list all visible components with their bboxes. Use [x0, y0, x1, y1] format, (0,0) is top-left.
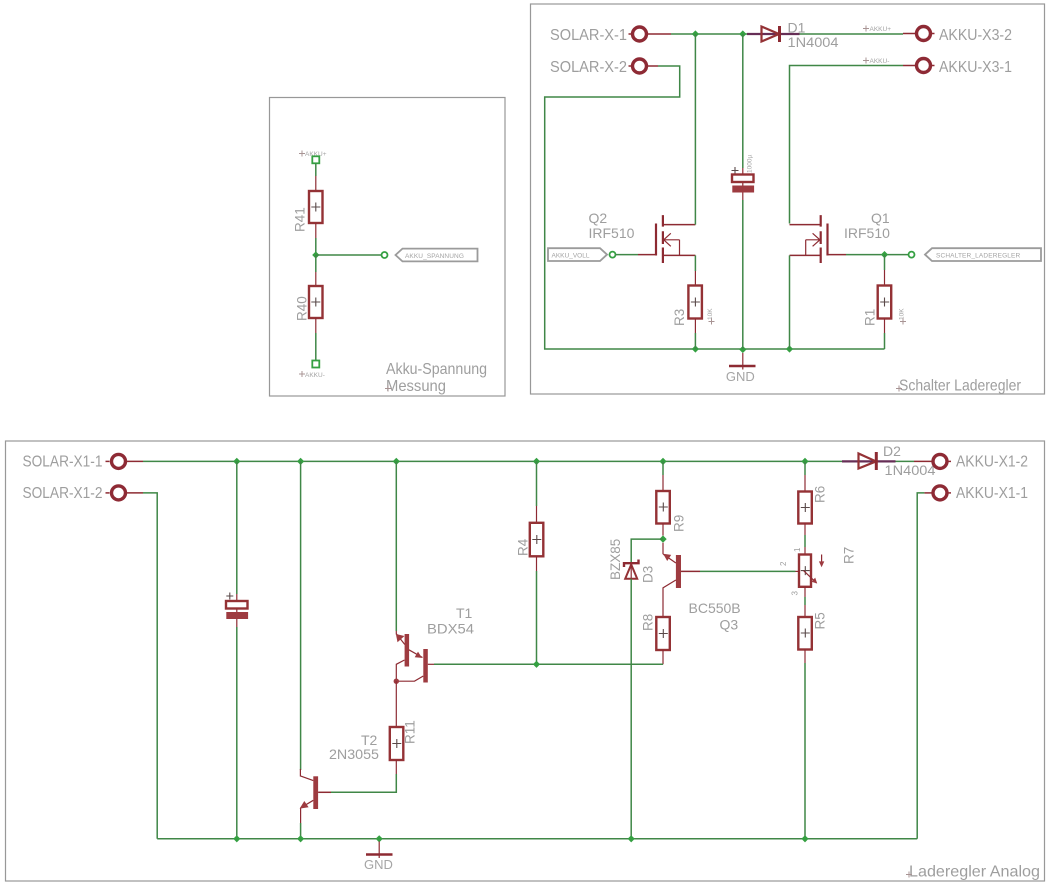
ground GND (box2)	[726, 353, 756, 384]
svg-text:R8: R8	[641, 614, 656, 631]
wire SOLAR-X-2 loop to bottom rail	[545, 66, 885, 349]
svg-text:SCHALTER_LADEREGLER: SCHALTER_LADEREGLER	[936, 253, 1021, 260]
wire	[315, 333, 317, 361]
wire Q2 drain up	[694, 34, 696, 225]
transistor Q2 IRF510	[589, 210, 696, 263]
svg-text:R7: R7	[842, 547, 857, 564]
junction	[786, 345, 793, 352]
wire	[616, 254, 639, 256]
svg-text:R9: R9	[672, 515, 687, 532]
wire	[315, 255, 317, 272]
wire cap top	[236, 461, 238, 594]
connector SOLAR-X1-2	[23, 485, 144, 502]
wire Q3 base to pot	[700, 570, 796, 572]
wire zener down	[630, 579, 632, 839]
junction zener node	[659, 535, 666, 542]
resistor R4	[516, 461, 544, 571]
svg-text:1000µ: 1000µ	[747, 155, 754, 173]
wire R4 bottom	[536, 571, 538, 664]
svg-text:AKKU-X3-1: AKKU-X3-1	[939, 59, 1012, 76]
diode D1 1N4004	[747, 20, 839, 51]
svg-text:GND: GND	[364, 857, 393, 872]
svg-text:T1: T1	[456, 605, 473, 621]
svg-text:Q1: Q1	[871, 210, 890, 226]
diode D2 1N4004	[842, 443, 936, 478]
svg-text:Akku-Spannung: Akku-Spannung	[386, 361, 487, 378]
svg-text:IRF510: IRF510	[589, 225, 635, 241]
wire Q1 source down	[789, 255, 791, 349]
wire from AKKU-X3-1 down to Q1 drain	[790, 66, 904, 224]
transistor Q3 BC550B	[663, 543, 741, 633]
resistor R1	[863, 270, 907, 333]
svg-text:Q3: Q3	[720, 617, 739, 633]
svg-text:Schalter Laderegler: Schalter Laderegler	[899, 378, 1022, 395]
svg-text:R5: R5	[813, 612, 828, 629]
wire	[896, 460, 915, 462]
svg-text:R40: R40	[295, 296, 310, 321]
svg-text:Laderegler Analog: Laderegler Analog	[909, 864, 1040, 881]
wire	[671, 33, 747, 35]
resistor R5	[798, 605, 827, 663]
wire cap bottom	[236, 627, 238, 839]
pin circle	[909, 252, 915, 258]
wire cap top	[742, 34, 744, 168]
net label AKKU+ (top)	[299, 151, 327, 159]
junction	[533, 661, 540, 668]
svg-text:1N4004: 1N4004	[885, 462, 936, 478]
svg-text:SOLAR-X-2: SOLAR-X-2	[550, 59, 627, 76]
junctions top rail	[233, 458, 240, 465]
wire	[804, 597, 806, 605]
wire	[315, 238, 317, 255]
resistor R6	[798, 461, 827, 535]
pin circle small	[382, 252, 388, 258]
resistor R41	[293, 176, 323, 238]
resistor R40	[295, 272, 323, 333]
svg-text:BZX85: BZX85	[608, 539, 623, 580]
wire	[315, 164, 317, 177]
junction	[739, 30, 746, 37]
svg-text:R1: R1	[863, 309, 878, 326]
svg-text:AKKU_VOLL: AKKU_VOLL	[552, 253, 590, 260]
junction	[881, 251, 888, 258]
svg-text:R6: R6	[813, 486, 828, 503]
frame box Akku-Spannung Messung	[270, 98, 506, 397]
connector AKKU-X3-2	[903, 27, 1012, 45]
svg-text:SOLAR-X1-1: SOLAR-X1-1	[23, 454, 103, 471]
frame box Laderegler Analog	[6, 441, 1045, 881]
svg-text:SOLAR-X1-2: SOLAR-X1-2	[23, 485, 103, 502]
sheet title Akku-Spannung Messung	[385, 361, 487, 395]
net label AKKU- (bottom)	[299, 371, 325, 379]
svg-text:AKKU-: AKKU-	[305, 372, 325, 379]
transistor T2 2N3055	[300, 732, 380, 823]
svg-text:AKKU-X1-2: AKKU-X1-2	[956, 454, 1028, 471]
svg-text:Q2: Q2	[589, 210, 608, 226]
wire R11 to T2 base	[331, 774, 396, 792]
junction	[692, 30, 699, 37]
svg-text:3: 3	[791, 591, 800, 596]
svg-text:GND: GND	[726, 369, 755, 384]
wire Q2 source down	[694, 255, 696, 271]
connector AKKU-X1-1	[924, 485, 1028, 502]
frame box Schalter Laderegler	[531, 4, 1045, 394]
wire T1 emitter rail	[395, 461, 397, 631]
zener diode D3 BZX85	[608, 539, 655, 583]
mid wire T1 collector to R8	[434, 663, 663, 665]
svg-text:Messung: Messung	[386, 378, 446, 395]
wire to label	[316, 254, 382, 256]
resistor R11	[390, 681, 418, 774]
junctions bottom rail	[233, 835, 240, 842]
wire node to zener	[631, 539, 663, 562]
wire	[800, 33, 904, 35]
svg-text:BC550B: BC550B	[689, 600, 741, 616]
wire	[804, 535, 806, 547]
junction	[739, 346, 746, 353]
transistor Q1 IRF510	[790, 210, 891, 263]
svg-text:1N4004: 1N4004	[788, 34, 839, 50]
wire AKKU-X1-1 down right rail	[917, 493, 924, 839]
resistor R9	[656, 461, 686, 535]
top rail wire	[143, 460, 842, 462]
wire T2 collector rail	[300, 461, 302, 770]
svg-text:AKKU-: AKKU-	[870, 58, 890, 65]
node junction	[312, 251, 319, 258]
pin square bottom	[312, 361, 319, 368]
svg-text:IRF510: IRF510	[844, 225, 890, 241]
svg-text:10K: 10K	[707, 308, 714, 320]
ground GND (box3)	[364, 842, 393, 873]
svg-text:1: 1	[793, 547, 802, 552]
svg-text:AKKU-X1-1: AKKU-X1-1	[956, 485, 1028, 502]
wire R5 down	[804, 663, 806, 839]
wire	[694, 333, 696, 349]
connector AKKU-X1-2	[914, 454, 1028, 471]
connector SOLAR-X-2	[550, 59, 658, 76]
svg-text:10K: 10K	[899, 308, 906, 320]
svg-text:R4: R4	[516, 538, 531, 556]
svg-text:D2: D2	[883, 443, 901, 459]
resistor R8	[641, 614, 670, 665]
svg-text:BDX54: BDX54	[427, 621, 474, 637]
connector SOLAR-X1-1	[23, 454, 144, 471]
label flag AKKU_SPANNUNG	[396, 249, 478, 262]
resistor R3	[672, 271, 715, 333]
connector AKKU-X3-1	[903, 59, 1012, 77]
wire cap bottom	[742, 200, 744, 349]
svg-text:2N3055: 2N3055	[329, 746, 379, 762]
label flag AKKU_VOLL	[548, 248, 607, 261]
connector SOLAR-X-1	[550, 27, 671, 44]
transistor T1 BDX54	[394, 605, 475, 684]
svg-text:R11: R11	[403, 720, 418, 744]
bottom rail wire	[157, 838, 917, 840]
pin square top	[312, 156, 319, 163]
wire SOLAR-X1-2 down left rail	[143, 493, 157, 839]
svg-text:AKKU_SPANNUNG: AKKU_SPANNUNG	[405, 253, 464, 260]
capacitor C (box3)	[226, 593, 248, 628]
sheet title Schalter Laderegler	[896, 378, 1022, 395]
label flag SCHALTER_LADEREGLER	[925, 248, 1041, 261]
svg-text:SOLAR-X-1: SOLAR-X-1	[550, 27, 627, 44]
wire Q1 gate to R1 node	[846, 254, 908, 256]
net label AKKU+	[863, 26, 891, 34]
svg-text:AKKU+: AKKU+	[870, 26, 892, 33]
capacitor 1000u	[732, 155, 755, 200]
net label AKKU-	[863, 58, 889, 66]
sheet title Laderegler Analog	[906, 864, 1040, 881]
junction	[692, 345, 699, 352]
svg-text:2: 2	[779, 561, 788, 566]
wire T2 emitter down	[300, 823, 302, 839]
wire	[884, 333, 886, 349]
svg-text:D3: D3	[641, 566, 656, 583]
svg-text:R3: R3	[672, 309, 687, 326]
pin circle	[610, 252, 616, 258]
wire node to R1	[884, 255, 886, 270]
potentiometer R7	[779, 547, 857, 597]
svg-text:AKKU-X3-2: AKKU-X3-2	[939, 27, 1012, 44]
svg-text:R41: R41	[293, 207, 308, 232]
